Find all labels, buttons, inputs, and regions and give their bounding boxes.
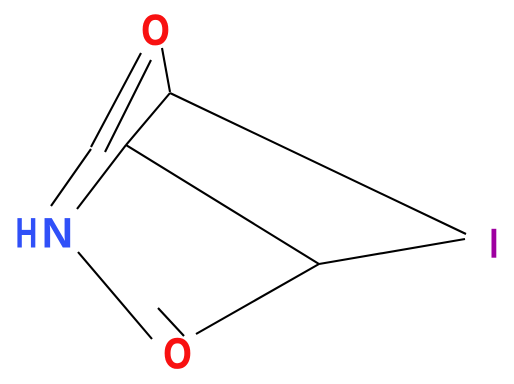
wire valley vertex up to iodine — [319, 239, 465, 264]
carbonyl C1=O top double bond main line — [91, 53, 141, 147]
svg-text:O: O — [164, 331, 192, 378]
wire valley vertex to bottom O — [196, 264, 319, 334]
carbonyl C1=O top double bond inner line — [105, 60, 151, 152]
wire top O down to chain vertex B — [162, 48, 170, 92]
svg-text:O: O — [142, 8, 170, 55]
wire C alpha up to chain vertex B — [126, 93, 170, 145]
atom I iodine — [492, 229, 497, 258]
svg-text:N: N — [42, 211, 74, 258]
wire N to C3 with C3=O bottom main line — [78, 252, 152, 339]
carbonyl C3=O bottom double bond inner line — [158, 308, 184, 336]
wire C1 to N — [51, 149, 91, 206]
svg-text:H: H — [15, 211, 37, 258]
wire C alpha down-right to valley vertex — [126, 145, 319, 264]
wire N to C alpha — [77, 145, 126, 209]
wire chain vertex B long diagonal to iodine — [170, 93, 466, 234]
